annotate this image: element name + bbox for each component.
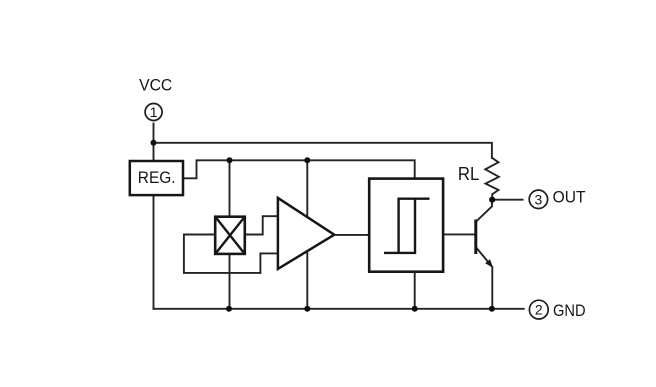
svg-text:RL: RL [458, 164, 479, 184]
svg-text:VCC: VCC [139, 75, 172, 94]
svg-text:GND: GND [553, 301, 586, 320]
svg-text:1: 1 [150, 104, 158, 120]
svg-text:OUT: OUT [553, 188, 586, 207]
svg-text:2: 2 [535, 302, 543, 318]
svg-text:REG.: REG. [138, 168, 176, 187]
svg-text:3: 3 [535, 191, 543, 207]
